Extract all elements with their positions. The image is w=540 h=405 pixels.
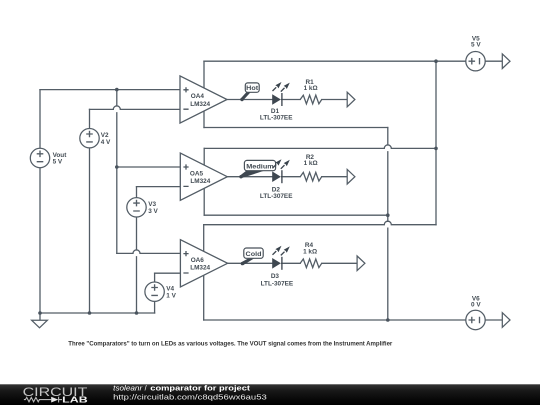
svg-text:LTL-307EE: LTL-307EE [261, 281, 294, 288]
svg-text:LAB: LAB [62, 395, 87, 405]
svg-text:LTL-307EE: LTL-307EE [260, 193, 293, 200]
svg-text:Cold: Cold [246, 251, 262, 258]
svg-text:1 kΩ: 1 kΩ [304, 85, 318, 92]
svg-text:4 V: 4 V [101, 139, 111, 146]
svg-text:D3: D3 [271, 273, 280, 280]
svg-text:5 V: 5 V [53, 159, 63, 166]
svg-text:1 kΩ: 1 kΩ [304, 160, 318, 167]
svg-text:comparator for project: comparator for project [150, 383, 250, 392]
svg-text:Hot: Hot [246, 85, 259, 92]
svg-text:LTL-307EE: LTL-307EE [260, 115, 293, 122]
svg-text:1 V: 1 V [166, 292, 176, 299]
svg-text:LM324: LM324 [190, 101, 210, 108]
svg-text:1 kΩ: 1 kΩ [303, 249, 317, 256]
svg-text:0 V: 0 V [471, 301, 481, 308]
svg-text:http://circuitlab.com/c8qd56wx: http://circuitlab.com/c8qd56wx6au53 [113, 392, 267, 401]
svg-text:tsoleanr: tsoleanr [113, 383, 143, 392]
svg-text:3 V: 3 V [148, 208, 158, 215]
svg-text:LM324: LM324 [190, 178, 210, 185]
svg-text:LM324: LM324 [190, 265, 210, 272]
svg-text:5 V: 5 V [471, 42, 481, 49]
svg-text:Medium: Medium [246, 163, 274, 170]
svg-text:OA6: OA6 [191, 257, 205, 264]
svg-text:OA4: OA4 [191, 93, 205, 100]
svg-text:OA5: OA5 [190, 170, 204, 177]
svg-text:Three "Comparators" to turn on: Three "Comparators" to turn on LEDs as v… [68, 340, 393, 347]
